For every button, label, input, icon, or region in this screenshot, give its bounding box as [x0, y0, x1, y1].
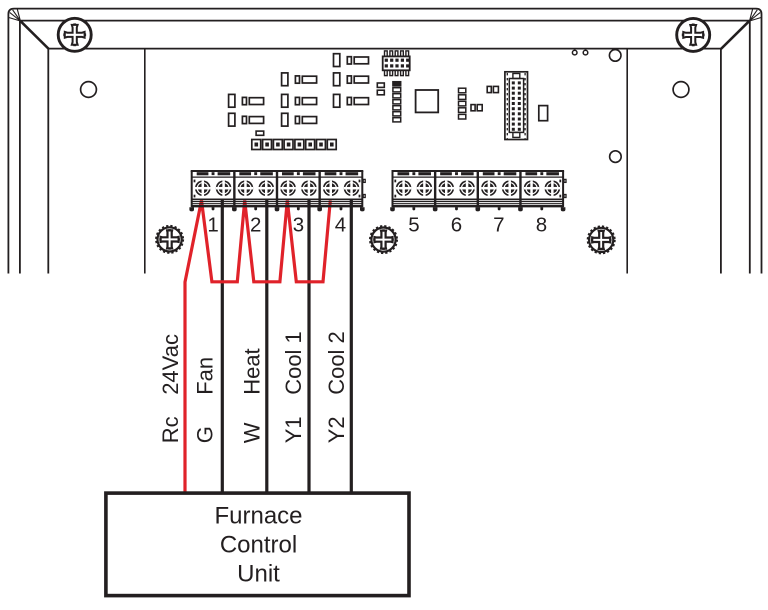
svg-text:3: 3 [293, 214, 304, 237]
corner bevel top-left [21, 21, 49, 49]
svg-text:8: 8 [536, 214, 547, 237]
backplate outer edge [8, 9, 761, 274]
header J2 (2x5 pins) [383, 51, 410, 76]
component group 7 [229, 113, 264, 126]
resistor stack R-array [393, 82, 401, 122]
svg-text:Control: Control [220, 532, 297, 559]
wire Y2/Cool 2 [350, 200, 353, 494]
Furnace Control Unit label [214, 503, 302, 588]
display connector J3 [505, 72, 528, 140]
corner hatch top-left [9, 9, 21, 21]
component group 4 [229, 94, 264, 107]
mounting screw (large Phillips) [58, 18, 91, 51]
svg-text:1: 1 [207, 214, 218, 237]
panel hole left [81, 82, 97, 98]
terminal-area screw (knurled Phillips) [156, 226, 183, 253]
component C9 [539, 106, 548, 121]
svg-text:4: 4 [335, 214, 346, 237]
component group 2 [282, 73, 317, 86]
vent hole small 1 [572, 50, 577, 55]
svg-text:GFan: GFan [192, 357, 217, 443]
pad pair lower [471, 105, 482, 111]
resistor stack 2 [459, 88, 466, 119]
terminal block 1-4 upper body [191, 171, 366, 207]
terminal block 1-4 lower rails and feet [189, 199, 364, 211]
component group 1 [334, 54, 369, 67]
svg-text:5: 5 [408, 214, 419, 237]
jumper pad [256, 131, 264, 135]
component group 3 [334, 73, 369, 86]
terminal-area screw (knurled Phillips) [588, 227, 615, 254]
component group 8 [282, 113, 317, 126]
corner bevel top-right [721, 21, 749, 49]
terminal-area screw (knurled Phillips) [370, 226, 397, 253]
svg-text:Y2Cool 2: Y2Cool 2 [324, 331, 349, 443]
svg-text:Unit: Unit [237, 561, 280, 588]
svg-text:Y1Cool 1: Y1Cool 1 [281, 331, 306, 443]
svg-text:Furnace: Furnace [214, 503, 302, 530]
capacitor pair [377, 83, 384, 95]
terminal block 5-8 upper body [392, 171, 567, 207]
svg-text:Rc24Vac: Rc24Vac [158, 334, 183, 443]
Furnace Control Unit box [106, 493, 409, 595]
svg-text:7: 7 [493, 214, 504, 237]
red jumper wire Rc (terminals 1-4 to 24Vac) [185, 201, 330, 494]
IC U1 [416, 90, 439, 112]
wire W/Heat [265, 200, 268, 494]
backplate inner rim [20, 21, 750, 274]
vent hole small 2 [583, 50, 588, 55]
component group 6 [334, 94, 369, 107]
component group 5 [282, 94, 317, 107]
panel divider right [626, 49, 628, 274]
vent hole lower [610, 151, 622, 163]
wire G/Fan [221, 200, 224, 494]
terminal block 5-8 lower rails and feet [390, 199, 565, 211]
svg-text:2: 2 [250, 214, 261, 237]
panel divider left [144, 49, 146, 274]
panel hole right [673, 82, 689, 98]
vent hole top [609, 50, 621, 62]
inner panel outline [48, 49, 721, 274]
svg-text:WHeat: WHeat [239, 348, 264, 443]
svg-text:6: 6 [451, 214, 462, 237]
header J1 (8 pads) [252, 140, 336, 150]
mounting screw (large Phillips) [677, 18, 710, 51]
pad pair upper [487, 86, 498, 92]
wire Y1/Cool 1 [307, 200, 310, 494]
corner hatch top-right [750, 9, 762, 21]
